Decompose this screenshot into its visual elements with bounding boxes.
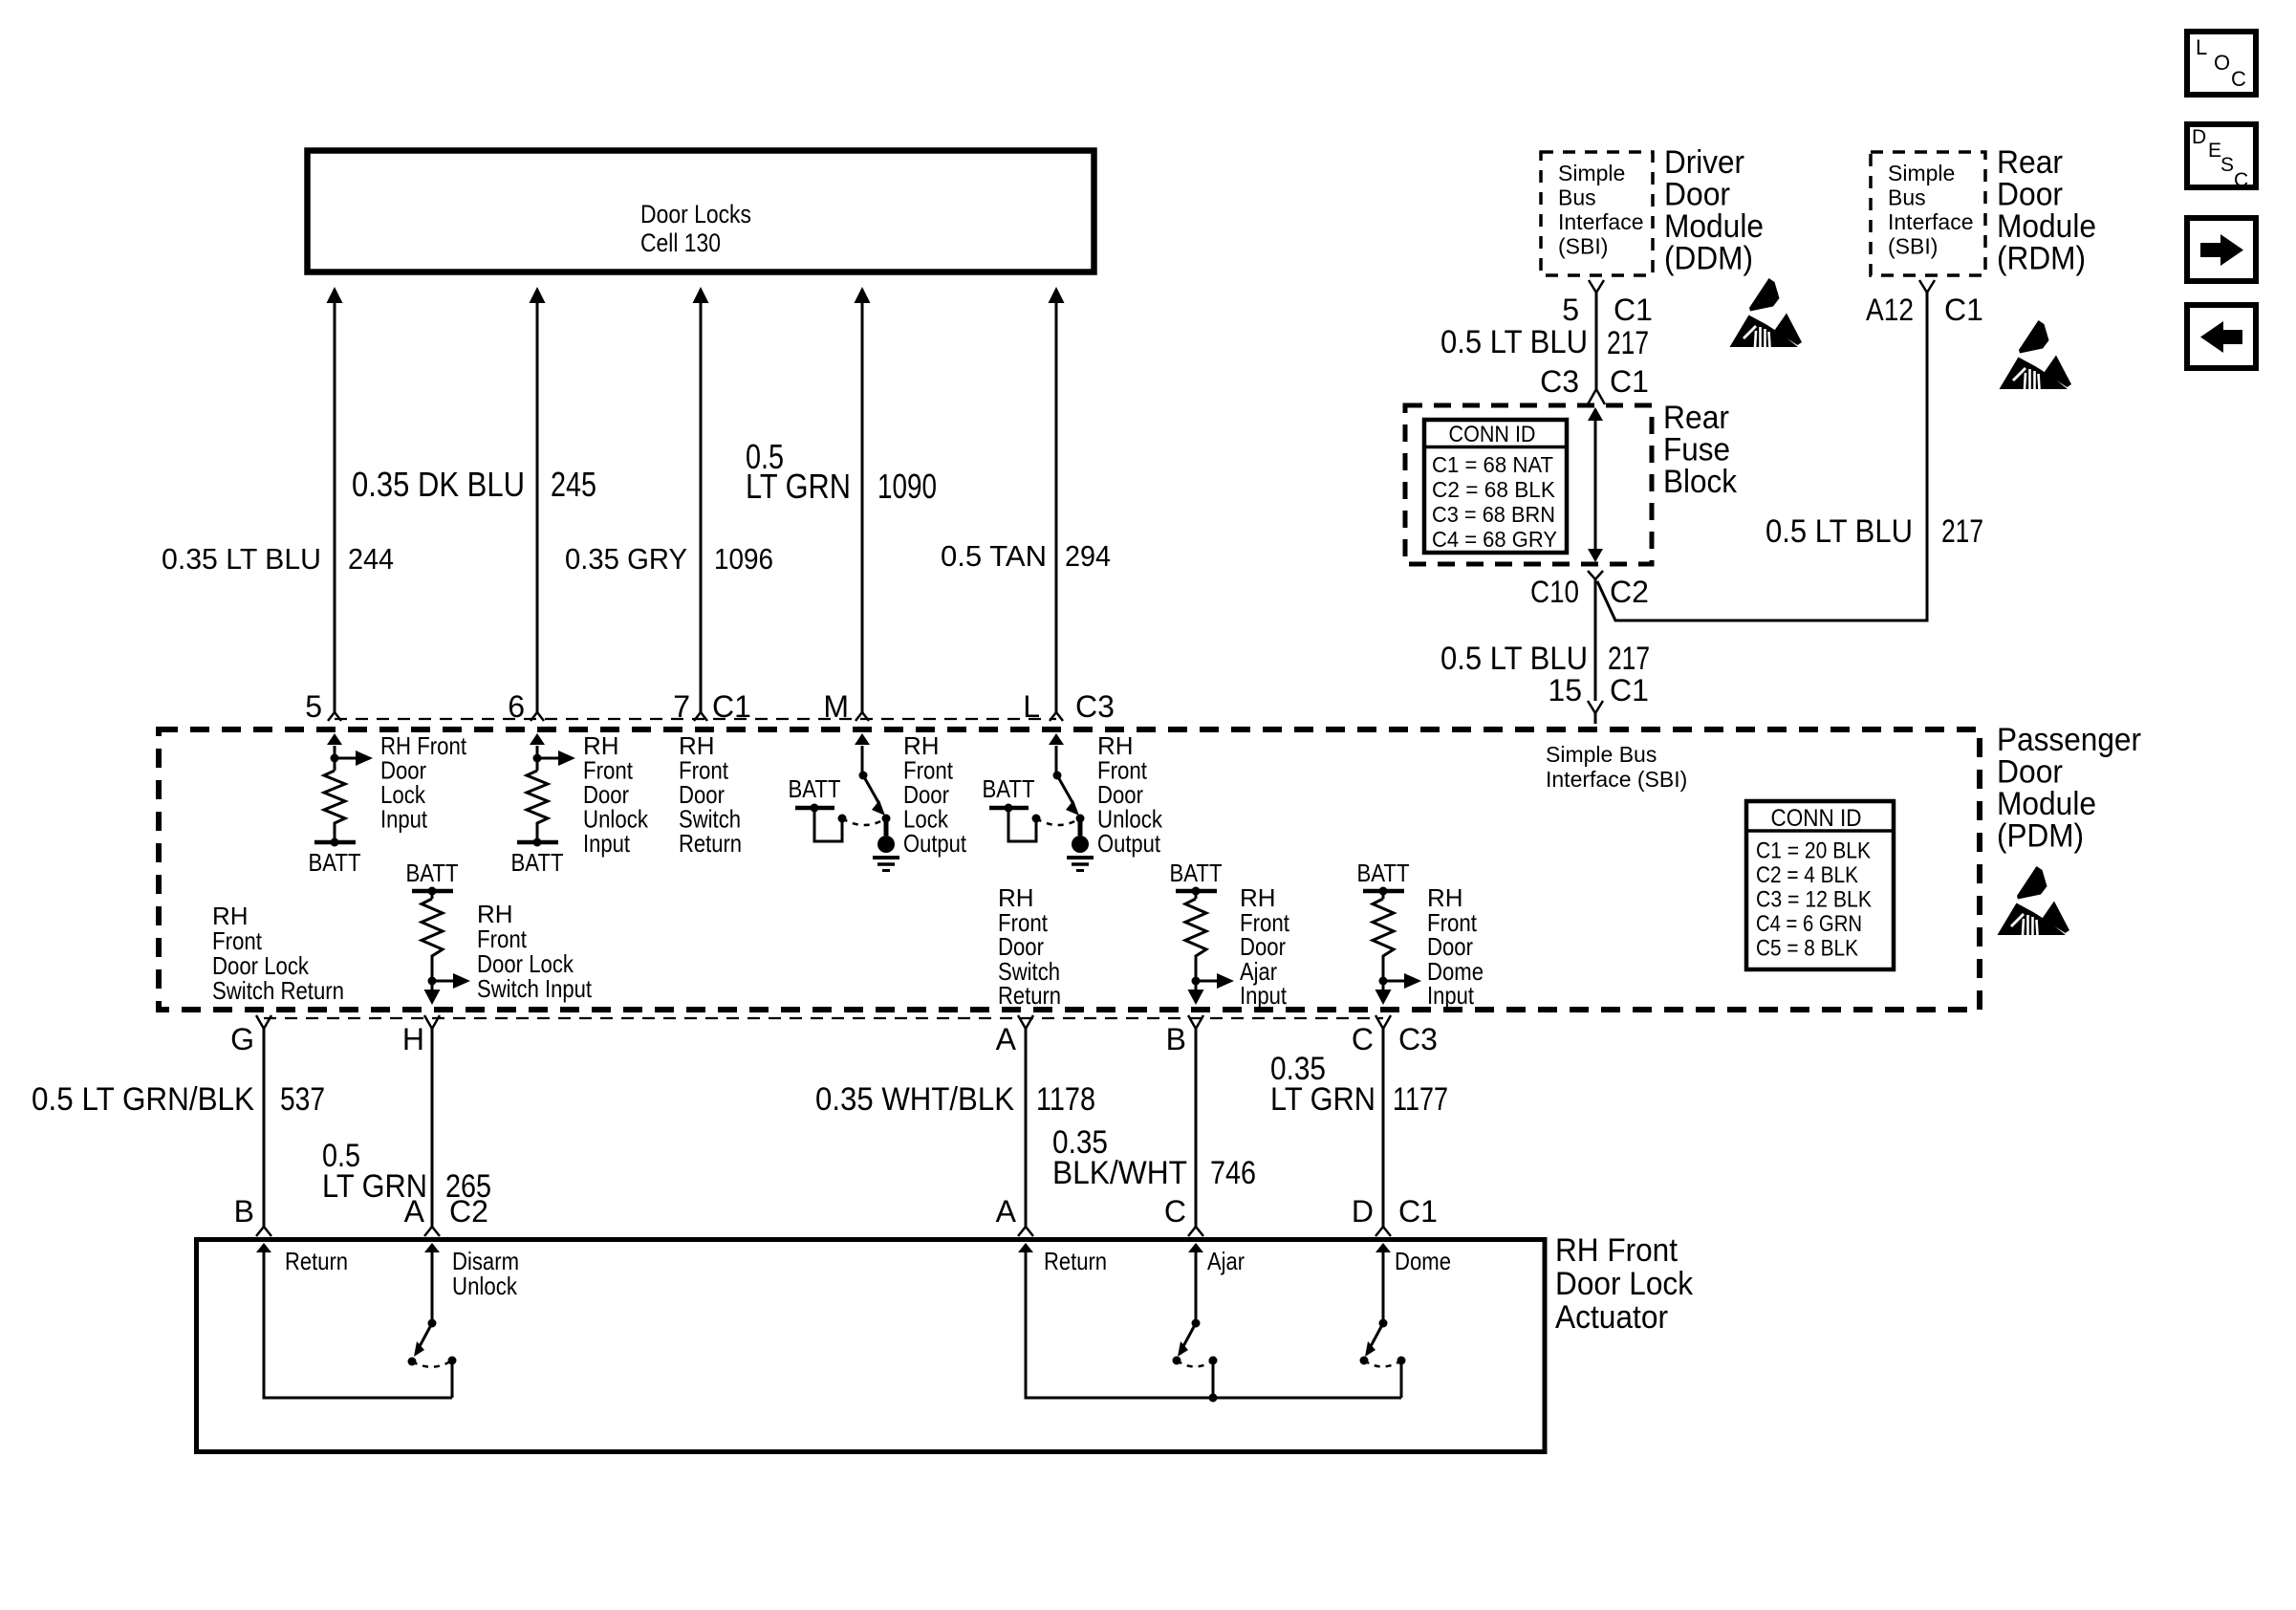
svg-text:A: A xyxy=(404,1194,425,1229)
svg-text:Dome: Dome xyxy=(1395,1247,1451,1275)
svg-text:Input: Input xyxy=(1240,981,1288,1010)
svg-text:D: D xyxy=(2192,126,2206,148)
label 0.35 WHT/BLK 1178 xyxy=(815,1081,1095,1118)
connector fork below RDM xyxy=(1919,280,1935,293)
wire 217 (RDM branch to fuse block C2) xyxy=(1597,293,1927,620)
svg-text:Door Locks: Door Locks xyxy=(640,200,751,228)
svg-text:Simple: Simple xyxy=(1888,161,1955,185)
svg-text:C3: C3 xyxy=(1398,1022,1438,1056)
svg-text:Input: Input xyxy=(583,829,631,858)
svg-text:Rear: Rear xyxy=(1997,144,2063,181)
pin A12 and connector C1 (RDM) xyxy=(1866,293,1983,327)
CONN ID table (Rear Fuse Block) xyxy=(1424,420,1567,553)
svg-text:1178: 1178 xyxy=(1036,1081,1095,1118)
resistor: RH Front Door Unlock Input (pin 6) xyxy=(527,733,575,842)
switch Ajar xyxy=(1173,1319,1218,1403)
ground (Unlock Output) xyxy=(1067,818,1094,871)
svg-text:(RDM): (RDM) xyxy=(1997,241,2086,277)
node label RH Front Door Ajar Input xyxy=(1240,883,1290,1010)
connector fork at PDM SBI pin 15 xyxy=(1588,701,1603,724)
svg-text:0.5 LT BLU: 0.5 LT BLU xyxy=(1440,324,1588,360)
svg-text:C: C xyxy=(1352,1022,1374,1056)
svg-text:S: S xyxy=(2220,154,2234,176)
svg-text:Bus: Bus xyxy=(1558,185,1596,210)
svg-text:C4 = 68 GRY: C4 = 68 GRY xyxy=(1432,527,1557,552)
wire 217 (fuse block to PDM SBI) xyxy=(1594,579,1597,701)
wire 1177 (0.35 LT GRN, C to actuator D) xyxy=(1375,1029,1391,1236)
svg-text:Input: Input xyxy=(1427,981,1475,1010)
node label RH Front Door Dome Input xyxy=(1427,883,1484,1010)
svg-text:B: B xyxy=(1166,1022,1186,1056)
svg-text:Door Lock: Door Lock xyxy=(1555,1266,1694,1302)
svg-text:Output: Output xyxy=(903,829,967,858)
svg-text:C3: C3 xyxy=(1540,364,1579,399)
wire 1090 (0.5 LT GRN, pin M to Door Locks) xyxy=(855,287,871,721)
svg-text:Module: Module xyxy=(1997,786,2096,822)
svg-text:Ajar: Ajar xyxy=(1207,1247,1245,1275)
svg-text:H: H xyxy=(402,1022,424,1056)
resistor: RH Front Door Lock Input (pin 5) xyxy=(324,733,373,842)
svg-text:C2 = 68 BLK: C2 = 68 BLK xyxy=(1432,477,1556,502)
node label RH Front Door Lock Switch Input xyxy=(477,900,593,1003)
svg-text:A: A xyxy=(996,1022,1017,1056)
svg-text:Door: Door xyxy=(1997,754,2063,791)
wire 265 (0.5 LT GRN, H to actuator A) xyxy=(424,1029,440,1236)
svg-text:Input: Input xyxy=(380,805,428,834)
BATT feed (pin M switch) xyxy=(789,774,847,841)
wire Return (actuator pin B) xyxy=(256,1243,452,1398)
svg-text:294: 294 xyxy=(1065,539,1111,573)
svg-text:BATT: BATT xyxy=(789,774,841,803)
connector forks PDM bottom pins G,H,A,B,C xyxy=(256,1015,1391,1029)
resistor: RH Front Door Lock Switch Input (pin H) xyxy=(406,859,471,1005)
svg-text:(SBI): (SBI) xyxy=(1558,234,1608,259)
svg-text:C2: C2 xyxy=(1610,575,1649,609)
svg-text:BATT: BATT xyxy=(1357,859,1410,887)
svg-text:Return: Return xyxy=(679,829,742,858)
switch throw arc (pin M) xyxy=(842,818,886,825)
svg-text:C1: C1 xyxy=(1610,673,1649,707)
wire 245 (0.35 DK BLU, pin 6 to Door Locks) xyxy=(530,287,546,721)
svg-text:Return: Return xyxy=(1044,1247,1107,1275)
svg-text:0.5 TAN: 0.5 TAN xyxy=(941,539,1047,573)
switch Disarm/Unlock xyxy=(408,1319,457,1399)
svg-text:D: D xyxy=(1352,1194,1374,1229)
label 0.35 DK BLU 245 xyxy=(352,465,596,504)
svg-text:1096: 1096 xyxy=(714,542,773,576)
svg-text:Driver: Driver xyxy=(1664,144,1744,181)
label Rear Fuse Block xyxy=(1663,400,1738,500)
svg-text:C3 = 12 BLK: C3 = 12 BLK xyxy=(1756,887,1872,913)
svg-text:Unlock: Unlock xyxy=(452,1272,518,1300)
connector fork below DDM xyxy=(1589,280,1604,293)
svg-text:O: O xyxy=(2214,51,2230,75)
svg-text:C1: C1 xyxy=(1398,1194,1438,1229)
svg-text:RH Front: RH Front xyxy=(1555,1232,1679,1269)
svg-text:0.5 LT GRN/BLK: 0.5 LT GRN/BLK xyxy=(32,1081,254,1118)
wire 746 (0.35 BLK/WHT, B to actuator C) xyxy=(1188,1029,1203,1236)
svg-text:C1 = 20 BLK: C1 = 20 BLK xyxy=(1756,838,1871,864)
svg-text:LT GRN: LT GRN xyxy=(1270,1081,1375,1118)
wire 1096 (0.35 GRY, pin 7 to Door Locks) xyxy=(693,287,709,721)
svg-text:LT GRN: LT GRN xyxy=(746,467,851,506)
CONN ID table (PDM) xyxy=(1746,801,1894,969)
svg-text:0.35 LT BLU: 0.35 LT BLU xyxy=(162,542,321,576)
wire 294 (0.5 TAN, pin L to Door Locks) xyxy=(1049,287,1065,721)
resistor: RH Front Door Dome Input (pin C) xyxy=(1357,859,1422,1005)
svg-text:Passenger: Passenger xyxy=(1997,722,2141,758)
label Driver Door Module (DDM) xyxy=(1664,144,1764,277)
svg-text:0.5 LT BLU: 0.5 LT BLU xyxy=(1765,513,1913,550)
node label RH Front Door Lock Input xyxy=(380,731,467,834)
svg-text:A12: A12 xyxy=(1866,293,1914,327)
wire 537 (0.5 LT GRN/BLK, G to actuator B) xyxy=(256,1029,271,1236)
svg-text:Interface: Interface xyxy=(1558,209,1644,234)
svg-text:C10: C10 xyxy=(1530,575,1579,609)
switch throw arc (pin L) xyxy=(1036,818,1080,825)
svg-text:Interface (SBI): Interface (SBI) xyxy=(1546,767,1687,792)
svg-text:Simple Bus: Simple Bus xyxy=(1546,742,1657,767)
svg-text:E: E xyxy=(2208,140,2221,162)
wire 244 (0.35 LT BLU, pin 5 to Door Locks) xyxy=(327,287,343,721)
svg-text:B: B xyxy=(234,1194,254,1229)
svg-text:Interface: Interface xyxy=(1888,209,1974,234)
svg-text:Rear: Rear xyxy=(1663,400,1729,436)
pin 15 and connector C1 (PDM SBI) xyxy=(1548,673,1649,707)
svg-text:537: 537 xyxy=(280,1081,325,1118)
box RH Front Door Lock Actuator xyxy=(197,1240,1546,1452)
svg-text:C2 = 4 BLK: C2 = 4 BLK xyxy=(1756,862,1858,888)
label Rear Door Module (RDM) xyxy=(1997,144,2096,277)
svg-text:Output: Output xyxy=(1097,829,1161,858)
node label RH Front Door Switch Return (pin A) xyxy=(998,883,1061,1010)
label Passenger Door Module (PDM) xyxy=(1997,722,2141,855)
svg-text:C4 = 6 GRN: C4 = 6 GRN xyxy=(1756,911,1862,937)
node label RH Front Door Switch Return (pin 7) xyxy=(679,731,742,858)
label 0.35 GRY 1096 xyxy=(565,542,773,576)
svg-text:746: 746 xyxy=(1210,1155,1256,1191)
svg-text:BATT: BATT xyxy=(406,859,459,887)
svg-text:BATT: BATT xyxy=(309,848,361,877)
connector face line (PDM top, C1/C3) xyxy=(335,718,1056,720)
node label Simple Bus Interface (SBI) in PDM xyxy=(1546,742,1687,792)
pin C and connector C3 xyxy=(1352,1022,1438,1056)
svg-text:A: A xyxy=(996,1194,1017,1229)
svg-text:217: 217 xyxy=(1608,641,1650,677)
label 0.5 LT BLU 217 (upper) xyxy=(1440,324,1649,361)
svg-text:Bus: Bus xyxy=(1888,185,1926,210)
svg-text:Door: Door xyxy=(1997,177,2063,213)
ground (Lock Output) xyxy=(873,818,899,871)
wire through Rear Fuse Block xyxy=(1588,407,1603,562)
wire Return (actuator pin A right) xyxy=(1018,1243,1401,1398)
pin C10 and connector C2 xyxy=(1530,575,1649,609)
svg-text:5: 5 xyxy=(1562,293,1579,327)
svg-text:Return: Return xyxy=(285,1247,348,1275)
label 0.5 LT BLU 217 (RDM branch) xyxy=(1765,513,1983,550)
svg-text:C1: C1 xyxy=(1610,364,1649,399)
svg-text:C5 = 8 BLK: C5 = 8 BLK xyxy=(1756,936,1858,962)
wire 1178 (0.35 WHT/BLK, A to actuator A) xyxy=(1018,1029,1033,1236)
node label RH Front Door Unlock Input xyxy=(583,731,649,858)
label 0.35 LT GRN 1177 xyxy=(1270,1051,1448,1118)
wire 217 (0.5 LT BLU, DDM to Rear Fuse Block) xyxy=(1595,293,1598,389)
label 0.5 LT GRN/BLK 537 xyxy=(32,1081,325,1118)
node label RH Front Door Lock Switch Return (pin G) xyxy=(212,902,344,1005)
connector C3/C1 (fuse block top) xyxy=(1540,364,1649,404)
left-arrow legend box xyxy=(2187,305,2256,368)
pin D and connector C1 (actuator) xyxy=(1352,1194,1438,1229)
svg-text:C1: C1 xyxy=(1614,293,1653,327)
svg-text:Cell 130: Cell 130 xyxy=(640,228,721,257)
svg-text:245: 245 xyxy=(551,465,596,504)
svg-text:BATT: BATT xyxy=(983,774,1035,803)
label 0.5 TAN 294 xyxy=(941,539,1111,573)
label 0.5 LT BLU 217 (lower) xyxy=(1440,641,1650,677)
svg-text:0.35 DK BLU: 0.35 DK BLU xyxy=(352,465,525,504)
label 0.35 LT BLU 244 xyxy=(162,542,394,576)
svg-text:(PDM): (PDM) xyxy=(1997,818,2084,855)
svg-text:Simple: Simple xyxy=(1558,161,1625,185)
svg-text:Switch Return: Switch Return xyxy=(212,976,344,1005)
Rear Door Module SBI dashed box xyxy=(1871,152,1985,275)
svg-text:Block: Block xyxy=(1663,464,1738,500)
svg-text:Module: Module xyxy=(1664,208,1764,245)
label Disarm Unlock xyxy=(452,1247,519,1300)
svg-text:Fuse: Fuse xyxy=(1663,432,1730,468)
svg-text:CONN ID: CONN ID xyxy=(1449,422,1536,447)
switch Dome xyxy=(1360,1319,1406,1399)
Rear Fuse Block dashed box xyxy=(1405,405,1652,564)
svg-text:L: L xyxy=(2196,35,2207,59)
Passenger Door Module (PDM) dashed outline xyxy=(159,729,1980,1010)
svg-text:Door: Door xyxy=(1664,177,1730,213)
svg-text:BATT: BATT xyxy=(511,848,564,877)
svg-text:C: C xyxy=(2234,169,2248,191)
resistor: RH Front Door Ajar Input (pin B) xyxy=(1170,859,1235,1005)
svg-text:C3 = 68 BRN: C3 = 68 BRN xyxy=(1432,502,1555,527)
svg-text:Actuator: Actuator xyxy=(1555,1299,1668,1336)
svg-text:C3: C3 xyxy=(1075,689,1115,724)
wire Ajar (actuator pin C) xyxy=(1188,1243,1203,1323)
connector fork below fuse block xyxy=(1588,571,1603,579)
svg-text:(DDM): (DDM) xyxy=(1664,241,1753,277)
node label RH Front Door Unlock Output xyxy=(1097,731,1163,858)
pin 7 and connector C1 xyxy=(673,689,751,724)
ESD warning symbol (DDM) xyxy=(1730,278,1803,347)
wire Dome (actuator pin D) xyxy=(1375,1243,1391,1323)
svg-text:0.35 WHT/BLK: 0.35 WHT/BLK xyxy=(815,1081,1014,1118)
label 0.5 LT GRN 265 xyxy=(322,1138,491,1205)
svg-text:5: 5 xyxy=(305,689,322,724)
svg-text:0.5 LT BLU: 0.5 LT BLU xyxy=(1440,641,1588,677)
box Door Locks Cell 130 xyxy=(308,151,1094,272)
BATT feed (pin 5 resistor) xyxy=(309,838,361,878)
svg-text:217: 217 xyxy=(1941,513,1983,550)
svg-text:C2: C2 xyxy=(449,1194,488,1229)
BATT feed (pin L switch) xyxy=(983,774,1041,841)
right-arrow legend box xyxy=(2187,218,2256,281)
switch: RH Front Door Unlock Output (pin L) xyxy=(1049,733,1085,823)
svg-text:C: C xyxy=(2231,67,2246,91)
pin A and connector C2 (actuator) xyxy=(404,1194,488,1229)
pin 5 and connector C1 (DDM) xyxy=(1562,293,1653,327)
LOC legend box xyxy=(2187,32,2256,95)
svg-text:BLK/WHT: BLK/WHT xyxy=(1052,1155,1187,1191)
svg-text:1090: 1090 xyxy=(877,467,937,506)
svg-text:C1 = 68 NAT: C1 = 68 NAT xyxy=(1432,452,1553,477)
svg-text:G: G xyxy=(230,1022,254,1056)
svg-text:C: C xyxy=(1164,1194,1186,1229)
switch: RH Front Door Lock Output (pin M) xyxy=(855,733,891,823)
svg-text:Return: Return xyxy=(998,981,1061,1010)
svg-text:15: 15 xyxy=(1548,673,1582,707)
node label RH Front Door Lock Output xyxy=(903,731,967,858)
BATT feed (pin 6 resistor) xyxy=(511,838,564,878)
label RH Front Door Lock Actuator xyxy=(1555,1232,1694,1336)
svg-text:244: 244 xyxy=(348,542,394,576)
svg-text:Module: Module xyxy=(1997,208,2096,245)
svg-text:1177: 1177 xyxy=(1393,1081,1448,1118)
connector face line (PDM bottom, C2/C3/C1) xyxy=(264,1017,1383,1019)
wire Disarm/Unlock (actuator pin A) xyxy=(424,1243,440,1323)
ESD warning symbol (PDM) xyxy=(1998,866,2070,935)
svg-text:Switch Input: Switch Input xyxy=(477,974,593,1003)
svg-text:0.35 GRY: 0.35 GRY xyxy=(565,542,687,576)
svg-text:BATT: BATT xyxy=(1170,859,1223,887)
ESD warning symbol (RDM) xyxy=(2000,320,2072,389)
pin L and connector C3 xyxy=(1023,689,1115,724)
svg-text:CONN ID: CONN ID xyxy=(1771,805,1862,832)
svg-text:C1: C1 xyxy=(1944,293,1983,327)
label 0.35 BLK/WHT 746 xyxy=(1052,1124,1256,1191)
DESC legend box xyxy=(2187,124,2256,191)
label 0.5 LT GRN 1090 xyxy=(746,437,937,506)
svg-text:(SBI): (SBI) xyxy=(1888,234,1938,259)
svg-text:217: 217 xyxy=(1607,325,1649,361)
Driver Door Module SBI dashed box xyxy=(1541,152,1653,275)
